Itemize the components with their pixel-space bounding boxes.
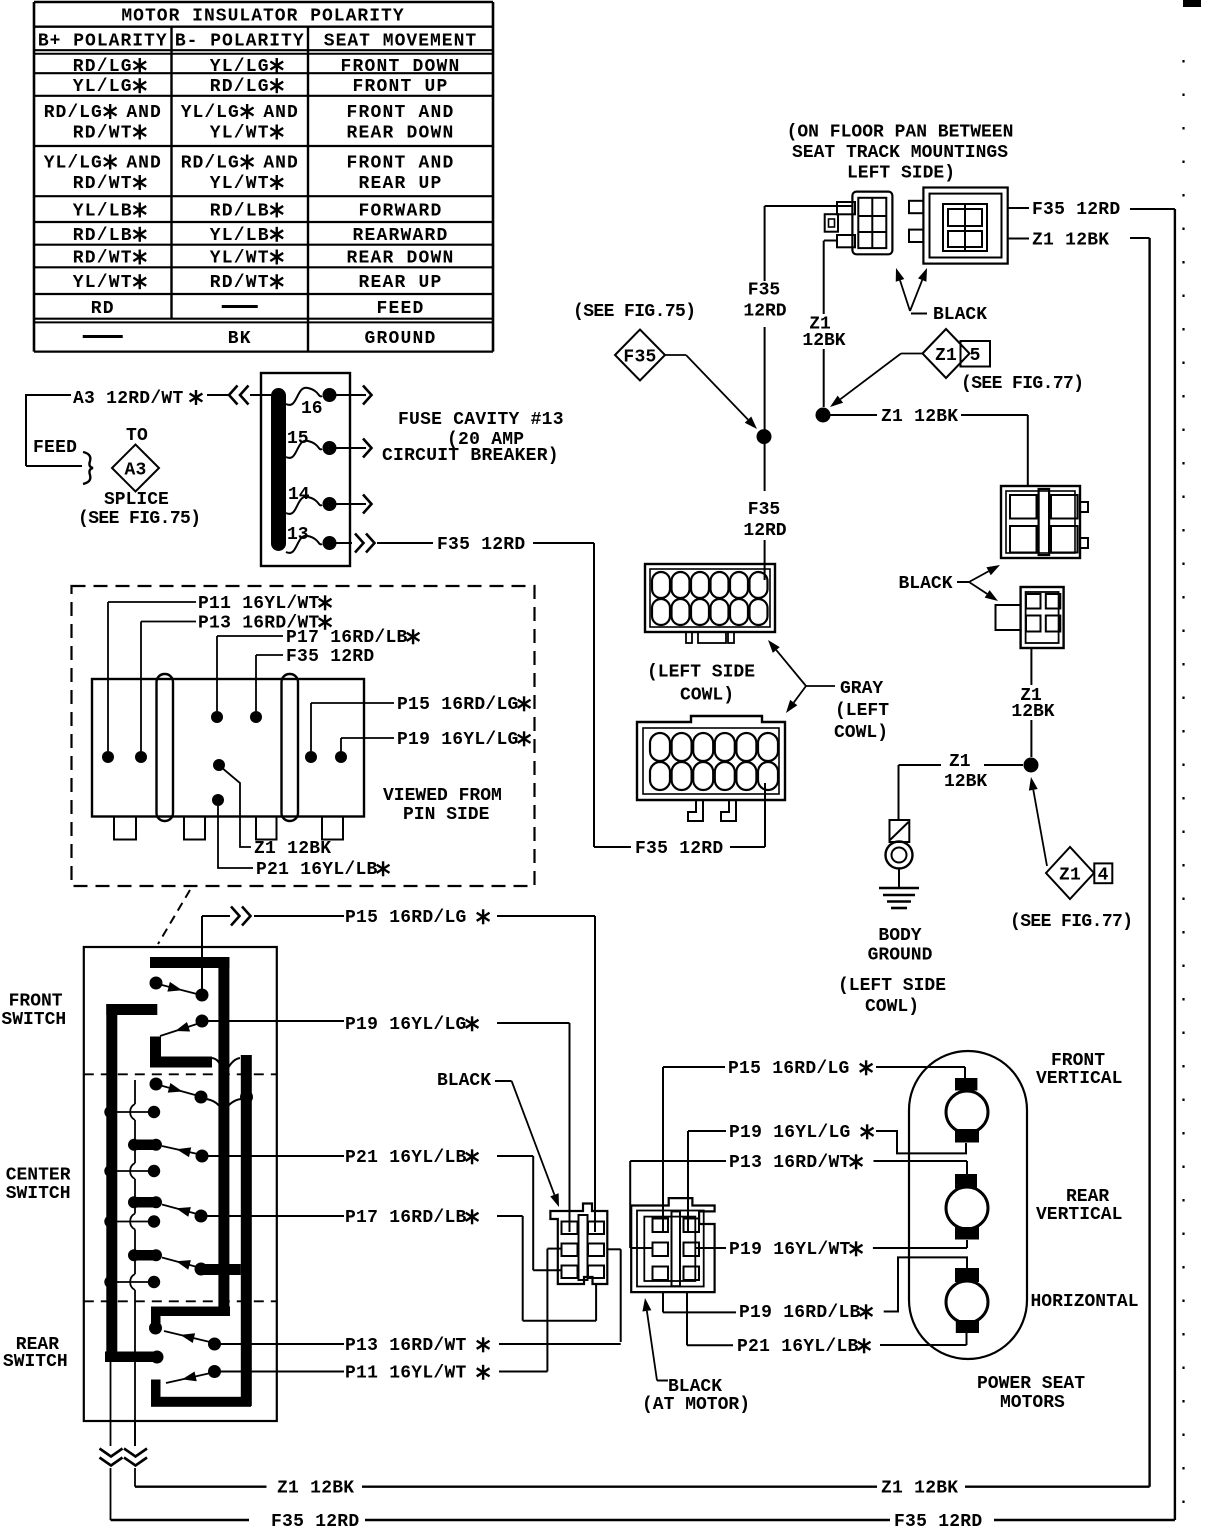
svg-text:5: 5: [970, 346, 981, 366]
svg-text:BODY: BODY: [878, 926, 921, 946]
svg-text:YL/WT: YL/WT: [210, 124, 270, 144]
svg-text:YL/LG AND: YL/LG AND: [181, 103, 299, 123]
svg-text:CENTER: CENTER: [6, 1166, 71, 1186]
svg-text:YL/LG: YL/LG: [210, 57, 270, 77]
svg-text:P13 16RD/WT: P13 16RD/WT: [345, 1336, 467, 1356]
svg-text:BLACK: BLACK: [899, 574, 953, 594]
svg-text:P19 16YL/WT: P19 16YL/WT: [729, 1240, 851, 1260]
svg-text:(LEFT SIDE: (LEFT SIDE: [647, 663, 755, 683]
svg-text:FRONT: FRONT: [9, 992, 63, 1012]
svg-text:POWER SEAT: POWER SEAT: [977, 1374, 1085, 1394]
svg-text:(SEE FIG.77): (SEE FIG.77): [961, 374, 1083, 394]
svg-text:YL/WT: YL/WT: [73, 273, 133, 293]
svg-text:FUSE CAVITY #13: FUSE CAVITY #13: [398, 410, 564, 430]
svg-text:B+ POLARITY: B+ POLARITY: [38, 31, 168, 51]
svg-text:RD/WT: RD/WT: [73, 174, 133, 194]
svg-text:RD/LG AND: RD/LG AND: [181, 154, 299, 174]
svg-text:RD/WT: RD/WT: [210, 273, 270, 293]
svg-text:P15 16RD/LG: P15 16RD/LG: [397, 695, 519, 715]
svg-text:FEED: FEED: [376, 299, 424, 319]
svg-text:P17 16RD/LB: P17 16RD/LB: [345, 1208, 467, 1228]
svg-text:F35: F35: [748, 281, 780, 301]
svg-text:GROUND: GROUND: [364, 329, 436, 349]
svg-text:PIN SIDE: PIN SIDE: [403, 805, 490, 825]
svg-text:(LEFT SIDE: (LEFT SIDE: [838, 976, 946, 996]
svg-text:FEED: FEED: [33, 438, 77, 458]
svg-text:F35 12RD: F35 12RD: [635, 839, 723, 859]
svg-text:A3 12RD/WT: A3 12RD/WT: [73, 389, 184, 409]
svg-text:P11 16YL/WT: P11 16YL/WT: [198, 594, 320, 614]
svg-text:P19 16YL/LG: P19 16YL/LG: [397, 730, 519, 750]
svg-text:BLACK: BLACK: [933, 305, 987, 325]
svg-text:RD: RD: [91, 299, 115, 319]
svg-text:GRAY: GRAY: [840, 679, 883, 699]
svg-text:Z1: Z1: [1059, 865, 1081, 885]
svg-text:YL/WT: YL/WT: [210, 174, 270, 194]
svg-text:13: 13: [287, 525, 309, 545]
svg-text:RD/LG: RD/LG: [210, 77, 270, 97]
svg-text:SWITCH: SWITCH: [1, 1010, 66, 1030]
svg-text:(SEE FIG.77): (SEE FIG.77): [1010, 912, 1132, 932]
svg-text:SWITCH: SWITCH: [3, 1352, 68, 1372]
svg-text:YL/LG AND: YL/LG AND: [44, 154, 162, 174]
svg-text:SWITCH: SWITCH: [6, 1184, 71, 1204]
svg-text:COWL): COWL): [680, 686, 734, 706]
svg-text:RD/LG: RD/LG: [73, 57, 133, 77]
svg-text:12BK: 12BK: [944, 772, 987, 792]
svg-text:(ON FLOOR PAN BETWEEN: (ON FLOOR PAN BETWEEN: [787, 123, 1014, 143]
svg-text:REAR: REAR: [1066, 1187, 1109, 1207]
svg-text:P13 16RD/WT: P13 16RD/WT: [729, 1153, 851, 1173]
svg-text:P21 16YL/LB: P21 16YL/LB: [737, 1337, 859, 1357]
svg-text:REAR UP: REAR UP: [358, 174, 442, 194]
svg-text:VERTICAL: VERTICAL: [1036, 1205, 1122, 1225]
svg-text:SPLICE: SPLICE: [104, 490, 169, 510]
svg-text:BLACK: BLACK: [437, 1071, 491, 1091]
svg-text:Z1 12BK: Z1 12BK: [881, 407, 958, 427]
svg-text:12BK: 12BK: [802, 331, 845, 351]
svg-text:Z1: Z1: [935, 346, 957, 366]
svg-text:COWL): COWL): [865, 997, 919, 1017]
svg-text:F35: F35: [623, 347, 656, 367]
svg-text:MOTORS: MOTORS: [1000, 1393, 1065, 1413]
svg-text:P21 16YL/LB: P21 16YL/LB: [256, 860, 378, 880]
svg-text:A3: A3: [124, 460, 146, 480]
svg-text:REARWARD: REARWARD: [352, 226, 448, 246]
svg-text:P19 16RD/LB: P19 16RD/LB: [739, 1303, 861, 1323]
svg-text:(SEE FIG.75): (SEE FIG.75): [78, 509, 200, 529]
svg-text:P15 16RD/LG: P15 16RD/LG: [728, 1059, 850, 1079]
svg-text:LEFT SIDE): LEFT SIDE): [847, 164, 955, 184]
svg-text:14: 14: [288, 485, 310, 505]
svg-text:SEAT TRACK MOUNTINGS: SEAT TRACK MOUNTINGS: [792, 143, 1008, 163]
svg-text:P15 16RD/LG: P15 16RD/LG: [345, 908, 467, 928]
svg-text:(SEE FIG.75): (SEE FIG.75): [573, 302, 695, 322]
svg-text:P19 16YL/LG: P19 16YL/LG: [729, 1123, 851, 1143]
svg-text:FRONT: FRONT: [1051, 1051, 1105, 1071]
svg-text:12RD: 12RD: [743, 521, 786, 541]
svg-text:FRONT AND: FRONT AND: [346, 154, 454, 174]
svg-text:TO: TO: [126, 426, 148, 446]
svg-text:COWL): COWL): [834, 723, 888, 743]
svg-text:HORIZONTAL: HORIZONTAL: [1031, 1292, 1139, 1312]
svg-text:P19 16YL/LG: P19 16YL/LG: [345, 1015, 467, 1035]
svg-text:YL/WT: YL/WT: [210, 249, 270, 269]
svg-text:P21 16YL/LB: P21 16YL/LB: [345, 1148, 467, 1168]
svg-text:Z1 12BK: Z1 12BK: [254, 839, 331, 859]
svg-text:12RD: 12RD: [743, 302, 786, 322]
svg-text:Z1 12BK: Z1 12BK: [1032, 231, 1109, 251]
svg-text:BLACK: BLACK: [668, 1377, 722, 1397]
svg-text:12BK: 12BK: [1011, 702, 1054, 722]
svg-text:4: 4: [1098, 866, 1109, 886]
svg-text:F35 12RD: F35 12RD: [894, 1512, 982, 1532]
svg-text:Z1 12BK: Z1 12BK: [881, 1479, 958, 1499]
svg-text:15: 15: [287, 429, 309, 449]
svg-text:VIEWED FROM: VIEWED FROM: [383, 786, 502, 806]
svg-text:F35: F35: [748, 500, 780, 520]
svg-text:RD/LB: RD/LB: [210, 202, 270, 222]
svg-text:Z1: Z1: [949, 752, 971, 772]
svg-text:YL/LB: YL/LB: [73, 202, 133, 222]
svg-text:REAR DOWN: REAR DOWN: [346, 124, 454, 144]
svg-text:FORWARD: FORWARD: [358, 202, 442, 222]
svg-text:RD/WT: RD/WT: [73, 249, 133, 269]
svg-text:F35 12RD: F35 12RD: [1032, 200, 1120, 220]
svg-text:REAR UP: REAR UP: [358, 273, 442, 293]
svg-text:YL/LG: YL/LG: [73, 77, 133, 97]
svg-text:REAR DOWN: REAR DOWN: [346, 249, 454, 269]
svg-text:P11 16YL/WT: P11 16YL/WT: [345, 1364, 467, 1384]
svg-text:YL/LB: YL/LB: [210, 226, 270, 246]
svg-text:P17 16RD/LB: P17 16RD/LB: [286, 628, 408, 648]
svg-text:16: 16: [301, 399, 323, 419]
svg-text:SEAT MOVEMENT: SEAT MOVEMENT: [324, 31, 477, 51]
svg-text:GROUND: GROUND: [868, 946, 933, 966]
svg-text:B- POLARITY: B- POLARITY: [175, 31, 305, 51]
svg-text:MOTOR INSULATOR POLARITY: MOTOR INSULATOR POLARITY: [121, 7, 404, 27]
svg-text:Z1 12BK: Z1 12BK: [277, 1479, 354, 1499]
svg-text:(AT MOTOR): (AT MOTOR): [642, 1395, 750, 1415]
svg-text:FRONT AND: FRONT AND: [346, 103, 454, 123]
svg-text:CIRCUIT BREAKER): CIRCUIT BREAKER): [382, 446, 559, 466]
svg-text:FRONT UP: FRONT UP: [352, 77, 448, 97]
svg-text:VERTICAL: VERTICAL: [1036, 1069, 1122, 1089]
svg-text:F35 12RD: F35 12RD: [437, 535, 525, 555]
svg-text:BK: BK: [228, 329, 252, 349]
svg-text:RD/LB: RD/LB: [73, 226, 133, 246]
svg-text:(LEFT: (LEFT: [835, 701, 889, 721]
svg-text:F35 12RD: F35 12RD: [286, 647, 374, 667]
svg-text:FRONT DOWN: FRONT DOWN: [340, 57, 460, 77]
svg-text:F35 12RD: F35 12RD: [271, 1512, 359, 1532]
svg-text:RD/WT: RD/WT: [73, 124, 133, 144]
svg-text:RD/LG AND: RD/LG AND: [44, 103, 162, 123]
